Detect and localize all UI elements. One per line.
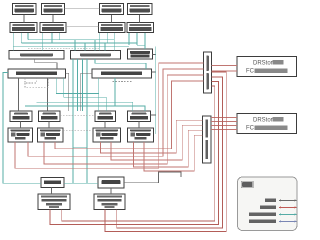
wire bus-D2 drop 2 [84, 43, 86, 51]
legend box [238, 177, 298, 231]
wire C drop 9 [113, 33, 115, 40]
wire C drop 10 [128, 33, 130, 45]
wire FC G4b [144, 135, 203, 171]
wire C drop 2 [20, 33, 22, 43]
wire dashed F2-F3 [60, 114, 95, 116]
wire teal H1-H3 [64, 182, 98, 184]
svg-text:FC: FC [246, 126, 255, 132]
wire H1-H2 [51, 188, 53, 195]
server F1 [10, 111, 32, 122]
wire FC G3a [101, 120, 203, 153]
wire FC remote 3 [117, 77, 223, 228]
switch D3 [128, 49, 153, 59]
wire heartbeat B2-B3 [65, 7, 100, 9]
wire E1-F1 [18, 78, 20, 111]
wire teal rail left [3, 73, 41, 184]
wire E1-F2 [47, 78, 49, 111]
legend row storage [249, 212, 276, 216]
wire E2 long teal [36, 102, 133, 111]
switch H3 [98, 177, 124, 188]
storage server G3 [93, 128, 121, 142]
server E2 [92, 69, 152, 78]
wire dashed G2-G3 [63, 129, 93, 131]
wire FC G1b [28, 69, 204, 156]
legend row mgmt [249, 219, 276, 223]
switch D2 [71, 51, 121, 60]
wire E gap link 2 [81, 73, 92, 111]
wire teal rail mid3 [77, 59, 79, 111]
FC switch V1 [204, 52, 212, 93]
wire E2-F3 [98, 78, 100, 94]
wire F4 stub [151, 114, 156, 116]
server B1 [13, 4, 37, 15]
wire D3 stub [153, 54, 156, 56]
disk array R2 [237, 114, 297, 134]
wire F1-G1 [20, 122, 22, 129]
server C3 [99, 23, 126, 33]
server B3 [100, 4, 124, 15]
wire E2 long teal 2 [25, 106, 145, 111]
server B4 [128, 4, 153, 15]
legend title [242, 182, 253, 187]
wire FC V1-R1 a [212, 64, 238, 66]
wire C drop 6 [58, 33, 60, 40]
wire storage bus 2 [21, 42, 137, 44]
server C2 [40, 23, 66, 33]
wire C drop 5 [51, 33, 53, 43]
wire F3-G3 [104, 122, 106, 129]
wire teal rail mid1 [72, 59, 74, 183]
server F3 [95, 111, 116, 122]
switch D1 [9, 51, 64, 60]
wire heartbeat C2-C3 [66, 25, 99, 27]
wire C drop 8 [107, 33, 109, 43]
wire teal rail mid2 [86, 59, 88, 183]
wire FC remote 1 [62, 86, 215, 221]
wire dashed E2 [113, 81, 132, 83]
server E1 [8, 69, 66, 78]
server C4 [127, 23, 154, 33]
server F2 [39, 111, 61, 122]
storage server G1 [8, 128, 33, 142]
wire C drop 4 [42, 33, 44, 51]
wire bus-D2 drop 5 [113, 40, 115, 51]
wire E2 drop mid [114, 78, 116, 106]
wire B3-C3 [111, 15, 113, 23]
wire F2-G2 [48, 122, 50, 129]
wire storage bus 1 [28, 39, 114, 41]
wire FC G4a [134, 130, 203, 167]
svg-text:DRStor: DRStor [253, 61, 273, 67]
server F4 [128, 111, 151, 122]
wire dashed E1 a [25, 78, 36, 83]
wire FC G2b [55, 81, 204, 149]
wire FC G1a [15, 63, 204, 168]
server C1 [10, 23, 37, 33]
wire FC V2-R2 4 [211, 129, 237, 131]
legend row heartbeat [265, 198, 276, 202]
wire FC remote 2 [50, 82, 219, 225]
server B2 [42, 4, 65, 15]
server H2 [38, 194, 70, 210]
svg-text:DRStor: DRStor [253, 118, 273, 124]
wire B2-C2 [52, 15, 54, 23]
wire teal rail mid4 [82, 59, 84, 111]
server H4 [94, 194, 125, 210]
wire E1 teal cross 1 [56, 78, 99, 111]
wire bus-D2 drop 1 [74, 40, 76, 51]
wire C drop 1 [12, 33, 14, 51]
wire B4-C4 [139, 15, 141, 23]
wire E2 stub [152, 71, 156, 73]
legend row FC [260, 205, 276, 209]
wire dashed E1 b [25, 78, 49, 87]
storage server G2 [38, 128, 64, 142]
wire C drop 12 [144, 33, 146, 45]
wire C drop 3 [27, 33, 29, 40]
FC switch V2 [203, 116, 212, 163]
wire FC G2a [44, 75, 204, 164]
wire storage bus 3 [13, 45, 129, 47]
wire H3-H4 [110, 188, 112, 194]
wire FC V2-R2 1 [211, 117, 237, 119]
wire FC G3b [111, 125, 203, 160]
wire FC V2-R2 2 [211, 121, 237, 123]
wire FC remote 4 [105, 72, 226, 231]
wire bus to D3 [137, 45, 145, 49]
wire teal connector [73, 146, 87, 148]
wire E gap link 1 [66, 73, 69, 111]
wire FC V2-R2 3 [211, 125, 237, 127]
wire mgmt dashed bus [28, 47, 100, 49]
wire FC V1-R1 b [212, 70, 238, 72]
wire bus-D2 drop 3 [94, 40, 96, 51]
wire bus-D2 drop 4 [104, 43, 106, 51]
wire D1-E1 [35, 59, 57, 69]
wire E1 teal cross 2 [64, 78, 107, 111]
wire C drop 7 [99, 33, 101, 51]
wire C drop 11 [136, 33, 138, 45]
wire teal rail D3 [155, 46, 157, 134]
wire B1-C1 [23, 15, 25, 23]
wire D2-E2 [95, 59, 146, 69]
svg-text:FC: FC [246, 69, 255, 75]
wire F4-G4 [138, 122, 140, 129]
switch H1 [41, 178, 64, 188]
storage server G4 [128, 128, 154, 142]
wire H3 right path [124, 172, 181, 183]
disk array R1 [237, 57, 297, 77]
